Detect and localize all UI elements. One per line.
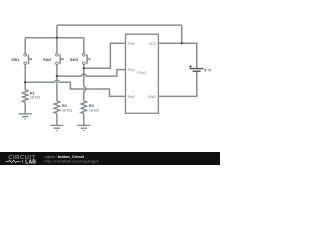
footer bar: [0, 152, 220, 165]
wire hop SW1 wire over SW2 column: [55, 80, 59, 82]
wire SW1 node to Pin2 continued: [59, 82, 125, 96]
resistor R1: [22, 90, 28, 103]
pushbutton SW3: [83, 53, 90, 64]
wire top rail right drop: [181, 25, 183, 43]
CircuitLab logo zigzag: [6, 160, 21, 163]
wire SW3 column below hop to R3: [83, 91, 85, 101]
wire R1 bottom to ground: [24, 102, 26, 114]
wire SW1 top drop: [24, 38, 26, 54]
svg-text:5 V: 5 V: [204, 68, 211, 73]
pushbutton SW1: [24, 53, 31, 64]
wire SW3 node to Pin0: [84, 43, 126, 68]
svg-text:10 kΩ: 10 kΩ: [30, 96, 40, 100]
svg-text:10 kΩ: 10 kΩ: [62, 108, 72, 112]
resistor R2: [54, 101, 60, 114]
wire SW3 column hop over SW1 wire: [84, 87, 86, 91]
wire top rail left drop: [56, 25, 58, 38]
svg-text:GND: GND: [148, 95, 157, 99]
junction node bus/top-rail: [56, 37, 58, 39]
wire top rail VCC: [57, 24, 182, 26]
svg-text:PSoC: PSoC: [137, 71, 147, 75]
junction node SW1/R1: [24, 81, 26, 83]
wire SW2 node to Pin1 continued: [86, 70, 126, 77]
wire SW3 bottom segment above hop: [83, 65, 85, 87]
pushbutton SW2: [56, 53, 63, 64]
wire SW1 node toward Pin2: [25, 81, 55, 83]
svg-text:SW1: SW1: [11, 58, 19, 62]
svg-text:Pin2: Pin2: [128, 95, 135, 99]
wire R3 bottom to ground: [83, 114, 85, 126]
resistor R3: [81, 101, 87, 114]
wire SW2 bottom to R2: [56, 65, 58, 101]
svg-text:SW3: SW3: [70, 58, 78, 62]
svg-text:http://circuitlab.com/caq3rqjp: http://circuitlab.com/caq3rqjp4: [44, 160, 98, 164]
wire SW1 bottom to R1: [24, 65, 26, 90]
wire hop SW2 wire over SW3 column: [82, 74, 86, 76]
svg-text:VCC: VCC: [149, 42, 157, 46]
ground under R1: [19, 114, 32, 119]
svg-text:10 kΩ: 10 kΩ: [89, 108, 99, 112]
svg-text:rajesh / button_Circuit: rajesh / button_Circuit: [44, 155, 84, 159]
junction node SW2/R2: [56, 75, 58, 77]
battery V1: [189, 65, 203, 71]
wire SW2 top drop: [56, 38, 58, 54]
svg-text:SW2: SW2: [43, 58, 51, 62]
wire VCC pin to battery top: [158, 43, 196, 68]
junction node SW3/R3: [83, 67, 85, 69]
wire SW3 top drop: [83, 38, 85, 54]
svg-text:Pin0: Pin0: [128, 42, 135, 46]
svg-text:Pin1: Pin1: [128, 68, 135, 72]
wire switch top bus: [25, 37, 84, 39]
ground under R3: [77, 125, 90, 130]
junction node VCC rail/battery: [181, 42, 183, 44]
wire battery bottom to GND pin: [158, 71, 196, 96]
ground under R2: [50, 125, 63, 130]
CircuitLab logo diode bar: [22, 160, 24, 163]
wire R2 bottom to ground: [56, 114, 58, 126]
IC U1 PSoC box: [126, 34, 159, 113]
wire SW2 node toward Pin1: [57, 75, 82, 77]
svg-text:LAB: LAB: [25, 159, 36, 165]
